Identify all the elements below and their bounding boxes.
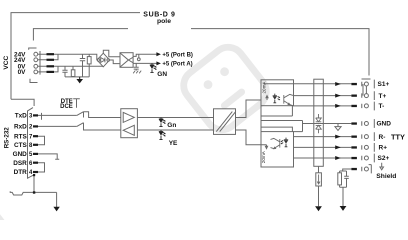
arrow R- [335,135,341,139]
svg-text:YE: YE [169,140,178,147]
shield RC join [340,187,347,206]
terminal 24V b [34,58,38,62]
svg-text:GND: GND [13,151,28,158]
wire 24V b stub [38,54,58,60]
terminal R- [364,135,368,139]
arrow S2+ [335,156,341,160]
svg-text:DCE: DCE [60,104,73,110]
wire T+ [294,95,352,97]
optocoupler U4 transistor [284,94,294,106]
junction shield vertical [33,174,35,176]
contact 24V a [47,53,55,55]
wire RxD to isolation [137,129,213,131]
shield wire to rail [33,175,35,192]
svg-text:T-: T- [379,103,385,110]
resistor R3 [340,171,347,187]
surge protection block [314,79,324,166]
signal ground stub GND5 [38,154,59,159]
contact pin2 [33,125,38,127]
svg-text:TxD: TxD [15,113,27,120]
terminal 0V a [34,64,38,68]
wire GND [303,123,352,125]
wire bridge bypass [103,50,120,57]
contact T+ [351,95,357,97]
terminal GND [364,122,368,126]
svg-text:20mA: 20mA [261,81,266,94]
terminal 24V a [34,52,38,56]
capacitor C4 [344,171,349,187]
arrow T+ [335,94,341,98]
contact S1+ [351,83,357,85]
optocoupler U5 LED [281,138,289,147]
svg-text:+5 (Port A): +5 (Port A) [162,62,192,68]
screw ticks right terminals [361,82,363,171]
DTE/DCE switch S1 [73,99,80,108]
RS-232 transceiver U2 [121,109,138,138]
ground triangle shield RC [340,206,347,211]
wire TxD to isolation [137,117,213,119]
wire 24V rail [38,54,97,60]
svg-text:TTY: TTY [391,132,405,141]
contact pin7 [33,135,38,137]
arrow +5 Port B [156,52,161,56]
wire RxD pin2 [38,125,77,127]
contact 0V a [47,65,55,67]
wire common mid [261,121,303,132]
power plug bracket bottom [30,79,38,83]
svg-text:T+: T+ [379,93,387,100]
signal ground arrow [53,207,59,212]
contact 24V b [47,59,55,61]
power plug bracket top [29,48,37,50]
terminal S1+ [364,82,368,86]
terminal S2+ [364,156,368,160]
terminal bracket S1+ [362,78,371,80]
power plug screw rail [39,51,41,75]
test point [138,54,140,58]
terminal Shield [364,167,368,171]
ground bus [65,76,89,78]
wire common top [261,106,292,132]
svg-text:20mA: 20mA [261,150,266,163]
terminal separators right [369,80,375,174]
contact Shield [351,168,357,170]
arrow +5 Port A [156,61,161,65]
jumper DSR-DTR [38,163,45,172]
wire S1+ [264,83,352,85]
DC/DC isolation module U3 [214,109,236,135]
LED YE [159,130,166,140]
resistor R2 [72,66,74,77]
arrow T- [335,104,341,108]
wire Shield [343,169,352,171]
svg-text:S2+: S2+ [378,155,390,162]
signal ground arrow stem [56,192,58,207]
svg-text:CTS: CTS [14,142,28,149]
wire S2+ [294,157,352,159]
ground triangle power [76,79,83,83]
resistor R1 [88,54,90,77]
svg-text:GND: GND [377,121,392,128]
wire U5 input [261,145,268,149]
wire +5 Port A [133,62,157,64]
contact S2+ [351,157,357,159]
svg-text:pole: pole [157,18,171,25]
bridge rectifier D1 [97,53,110,67]
wire TxD pin3 [38,113,77,120]
wire R+ [294,146,352,148]
wire 0V b stub [38,66,58,72]
wire 0V rail [38,65,104,68]
wire bridge out [110,60,121,64]
optocoupler U4 box [261,80,294,106]
svg-text:0V: 0V [18,69,27,76]
LED GN [150,63,157,72]
optocoupler U4 current source [266,96,268,101]
svg-text:R+: R+ [379,145,388,152]
DB9 bracket [11,99,34,106]
arrow R+ [335,145,341,149]
GND reference arrow [335,124,341,131]
optocoupler U5 transistor [271,138,280,148]
svg-text:Gn: Gn [167,122,176,129]
svg-text:DTR: DTR [14,169,28,176]
svg-text:GN: GN [157,71,167,78]
svg-text:VCC: VCC [3,56,10,70]
contact pin6 [33,162,38,164]
terminal R+ [364,145,368,149]
connector brace SUB-D [33,29,369,76]
shield rail [10,191,56,195]
wire isolation to optocoupler U4 [236,100,262,118]
ground triangle varistor [315,206,322,211]
contact pin4 [33,171,38,173]
contact 0V b [47,71,55,73]
capacitor C1 [80,54,85,77]
jumper RTS-CTS [38,136,45,145]
capacitor C2 electrolytic [62,66,67,77]
optocoupler U4 LED [273,94,281,103]
contact R- [351,136,357,138]
capacitor C3 chassis [134,63,139,70]
contact pin3 [33,114,38,116]
terminal circles right column [364,82,368,171]
varistor RV1 [318,166,320,206]
contact T- [351,105,357,107]
svg-text:S1+: S1+ [378,81,390,88]
jumper S1+/T+ [363,84,366,96]
svg-text:DSR: DSR [13,160,27,167]
arrow S1+ [335,82,341,86]
frame line [11,13,140,100]
contact R+ [351,146,357,148]
svg-text:Shield: Shield [376,173,396,180]
contact pin5 [33,153,38,155]
DC/DC converter U1 [120,53,133,68]
svg-text:+5 (Port B): +5 (Port B) [162,52,193,58]
terminal 0V b [34,70,38,74]
wire +5 Port B [133,54,157,56]
DB9 connector outline [28,108,35,179]
wire T- [294,105,352,107]
node common bus [302,121,304,132]
wire isolation to optocoupler U5 [236,130,262,145]
svg-text:R-: R- [379,134,386,141]
TVS diode [316,114,322,133]
contact pin8 [33,144,38,146]
contact GND [351,122,357,124]
svg-text:RTS: RTS [14,133,28,140]
terminal T- [364,104,368,108]
svg-text:RS-232: RS-232 [4,127,11,149]
earth mark shield [380,163,384,170]
wire R- [294,136,352,138]
terminal T+ [364,94,368,98]
optocoupler U5 box [261,132,294,167]
svg-text:RxD: RxD [14,124,27,131]
LED Gn [159,118,166,127]
